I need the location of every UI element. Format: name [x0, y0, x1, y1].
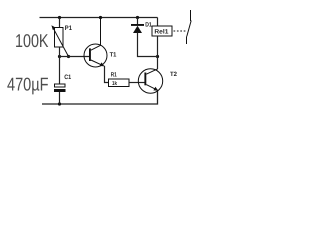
svg-text:P1: P1	[65, 25, 72, 32]
svg-text:C1: C1	[64, 74, 71, 81]
svg-text:1k: 1k	[112, 80, 118, 87]
svg-text:Rel1: Rel1	[154, 29, 169, 36]
svg-text:T1: T1	[110, 52, 117, 59]
svg-text:T2: T2	[170, 71, 178, 78]
svg-text:R1: R1	[111, 72, 117, 79]
svg-text:D1: D1	[145, 21, 152, 28]
svg-text:470µF: 470µF	[7, 74, 49, 95]
svg-text:100K: 100K	[15, 30, 49, 51]
